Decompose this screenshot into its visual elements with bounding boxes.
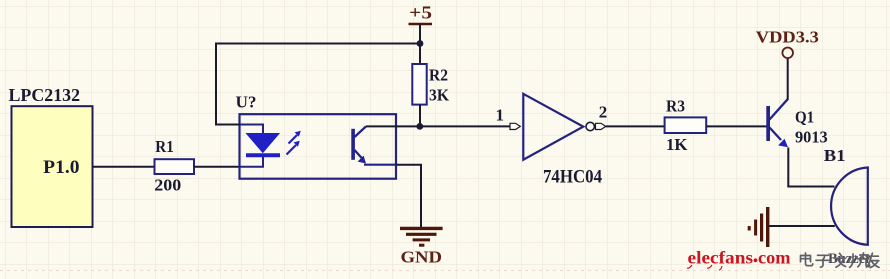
svg-text:R3: R3 bbox=[666, 97, 685, 116]
svg-text:2: 2 bbox=[599, 103, 608, 122]
wire Q1 emitter to buzzer bbox=[788, 148, 834, 187]
optocoupler U? box bbox=[240, 114, 397, 179]
LED cathode bar bbox=[246, 153, 280, 157]
Q1 collector diagonal bbox=[770, 99, 789, 120]
phototransistor emitter bbox=[355, 150, 364, 160]
resistor R1 bbox=[155, 159, 195, 174]
svg-text:9013: 9013 bbox=[795, 128, 828, 147]
svg-text:B1: B1 bbox=[824, 146, 846, 165]
resistor R2 bbox=[412, 64, 426, 105]
Q1 emitter arrowhead bbox=[778, 139, 788, 148]
svg-text:U?: U? bbox=[236, 93, 257, 112]
svg-text:R2: R2 bbox=[429, 66, 448, 85]
inverter output bubble bbox=[586, 122, 594, 130]
wire inverter to R3 bbox=[606, 125, 665, 127]
IC LPC2132 body bbox=[12, 106, 93, 227]
power +5 stem bbox=[419, 24, 421, 44]
wire U? anode loop to +5 rail bbox=[216, 44, 420, 125]
light emission arrow 1 bbox=[289, 131, 301, 144]
accent grid line bottom bbox=[0, 270, 890, 272]
Q1 emitter diagonal bbox=[770, 128, 782, 141]
resistor R3 bbox=[665, 117, 707, 133]
buzzer B1 bbox=[831, 168, 868, 245]
pin 2 marker bbox=[596, 123, 606, 129]
svg-text:com: com bbox=[758, 248, 791, 268]
svg-text:Q1: Q1 bbox=[795, 108, 814, 127]
earth ground bars bbox=[749, 207, 768, 247]
wire Q1 collector to VDD bbox=[787, 58, 789, 99]
wire P1.0 to R1 bbox=[93, 166, 155, 168]
inverter U2 74HC04 bbox=[523, 94, 583, 160]
junction at +5 rail bbox=[417, 40, 424, 47]
svg-text:R1: R1 bbox=[155, 137, 174, 156]
svg-text:GND: GND bbox=[401, 248, 443, 267]
transistor Q1 base bar bbox=[766, 106, 770, 141]
wire R1 to optocoupler bbox=[194, 166, 240, 168]
phototransistor bar bbox=[351, 129, 355, 160]
power +5 bar bbox=[409, 23, 433, 26]
svg-text:LPC2132: LPC2132 bbox=[9, 85, 81, 105]
light emission arrow 2 bbox=[287, 141, 300, 155]
LED cathode stem bbox=[240, 157, 263, 167]
svg-text:1K: 1K bbox=[666, 135, 688, 154]
svg-text:+5: +5 bbox=[409, 3, 432, 23]
phototransistor emitter pin bbox=[364, 164, 396, 166]
svg-text:200: 200 bbox=[154, 176, 181, 195]
wire R3 to Q1 base bbox=[706, 125, 766, 127]
phototransistor emitter arrowhead bbox=[358, 156, 366, 164]
power VDD3.3 circle bbox=[782, 48, 793, 59]
svg-text:VDD3.3: VDD3.3 bbox=[756, 28, 819, 47]
junction node collector bbox=[416, 123, 423, 130]
svg-text:P1.0: P1.0 bbox=[43, 158, 79, 178]
pin 1 marker bbox=[510, 123, 520, 129]
svg-text:1: 1 bbox=[496, 106, 505, 125]
svg-text:elecfans: elecfans bbox=[688, 248, 754, 268]
svg-text:74HC04: 74HC04 bbox=[543, 167, 602, 188]
wire buzzer bottom to earth bbox=[769, 225, 835, 227]
wire U? emitter to GND bbox=[396, 165, 421, 228]
wire R2 to node bbox=[419, 105, 421, 127]
LED anode wire inside U? bbox=[240, 125, 264, 135]
phototransistor collector bbox=[355, 126, 367, 137]
ground GND bars bbox=[400, 228, 443, 245]
svg-text:3K: 3K bbox=[429, 86, 450, 105]
LED triangle bbox=[247, 134, 280, 153]
watermark chinese 电子发烧友 bbox=[801, 253, 880, 268]
wire rail to R2 bbox=[419, 44, 421, 65]
wire collector to inverter bbox=[366, 125, 510, 127]
